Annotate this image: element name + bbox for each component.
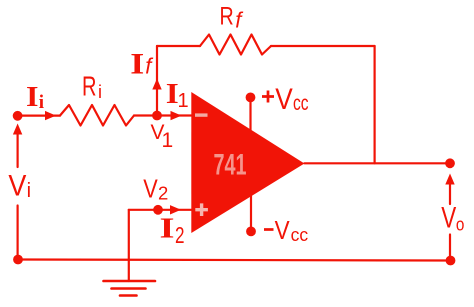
svg-text:R: R	[82, 70, 97, 101]
wire left input column lower	[17, 206, 19, 260]
label I2	[160, 213, 185, 248]
svg-text:i: i	[98, 82, 102, 102]
node V2 junction	[153, 205, 163, 215]
wire non-inverting input horizontal	[129, 209, 192, 211]
arrow If current (up)	[152, 79, 161, 90]
node input terminal	[13, 111, 23, 121]
svg-text:i: i	[27, 180, 31, 202]
node bottom left	[13, 255, 23, 265]
svg-text:V: V	[143, 173, 158, 203]
arrow Ii current	[45, 111, 56, 120]
svg-text:i: i	[39, 92, 44, 113]
label V1	[151, 121, 174, 152]
label If	[130, 47, 154, 80]
wire left input column upper	[17, 130, 19, 167]
label +Vcc	[262, 83, 309, 116]
node output terminal	[445, 158, 455, 168]
svg-text:V: V	[275, 83, 293, 116]
wire non-inverting bend down to ground	[128, 210, 130, 281]
svg-text:f: f	[145, 53, 154, 78]
wire feedback top left segment	[157, 45, 200, 47]
svg-text:2: 2	[175, 222, 185, 248]
svg-text:V: V	[275, 215, 291, 245]
svg-text:V: V	[441, 201, 456, 234]
svg-text:R: R	[220, 3, 234, 31]
svg-text:o: o	[456, 215, 465, 235]
node bottom right	[446, 256, 456, 266]
svg-text:741: 741	[214, 148, 247, 181]
wire feedback top right segment	[271, 45, 375, 47]
wire feedback drop to output	[374, 46, 376, 163]
op-amp U1 (741)	[191, 92, 304, 233]
svg-text:f: f	[235, 7, 244, 32]
resistor Rf	[200, 35, 271, 55]
label Vi	[8, 170, 31, 203]
arrow I1 current	[171, 111, 182, 120]
wire +Vcc pin	[249, 97, 251, 140]
node -Vcc terminal	[246, 227, 256, 237]
wire input left horizontal	[18, 114, 60, 116]
svg-text:V: V	[8, 170, 26, 203]
label Rf	[220, 3, 245, 33]
label -Vcc	[264, 215, 308, 245]
wire op-amp output	[304, 162, 450, 164]
svg-text:cc: cc	[293, 92, 309, 115]
arrow I2 current	[170, 205, 181, 214]
op-amp plus input mark	[195, 203, 208, 216]
resistor Ri	[60, 105, 134, 126]
label Vo	[441, 201, 464, 234]
svg-text:I: I	[26, 81, 39, 113]
wire right output column upper	[449, 180, 451, 204]
wire -Vcc pin	[250, 192, 252, 231]
wire feedback riser from node V1 up	[156, 46, 158, 116]
wire bottom rail	[18, 260, 451, 261]
svg-text:I: I	[160, 213, 175, 244]
svg-text:1: 1	[178, 90, 189, 112]
op-amp minus input mark	[195, 113, 208, 116]
label Ri	[82, 70, 102, 102]
node V1 junction	[152, 111, 162, 121]
label I1	[166, 79, 189, 112]
ground	[104, 281, 156, 296]
svg-text:I: I	[130, 47, 144, 80]
arrow Vi polarity (up)	[13, 124, 22, 135]
wire from Ri to op-amp inverting input	[134, 114, 191, 116]
svg-text:2: 2	[158, 183, 168, 203]
wire right output column lower	[449, 235, 451, 261]
svg-text:1: 1	[162, 129, 174, 152]
label Ii	[26, 81, 44, 113]
arrow Vo polarity (up)	[445, 174, 454, 185]
label V2	[143, 173, 168, 203]
node +Vcc terminal	[246, 93, 256, 103]
svg-text:cc: cc	[291, 225, 309, 245]
